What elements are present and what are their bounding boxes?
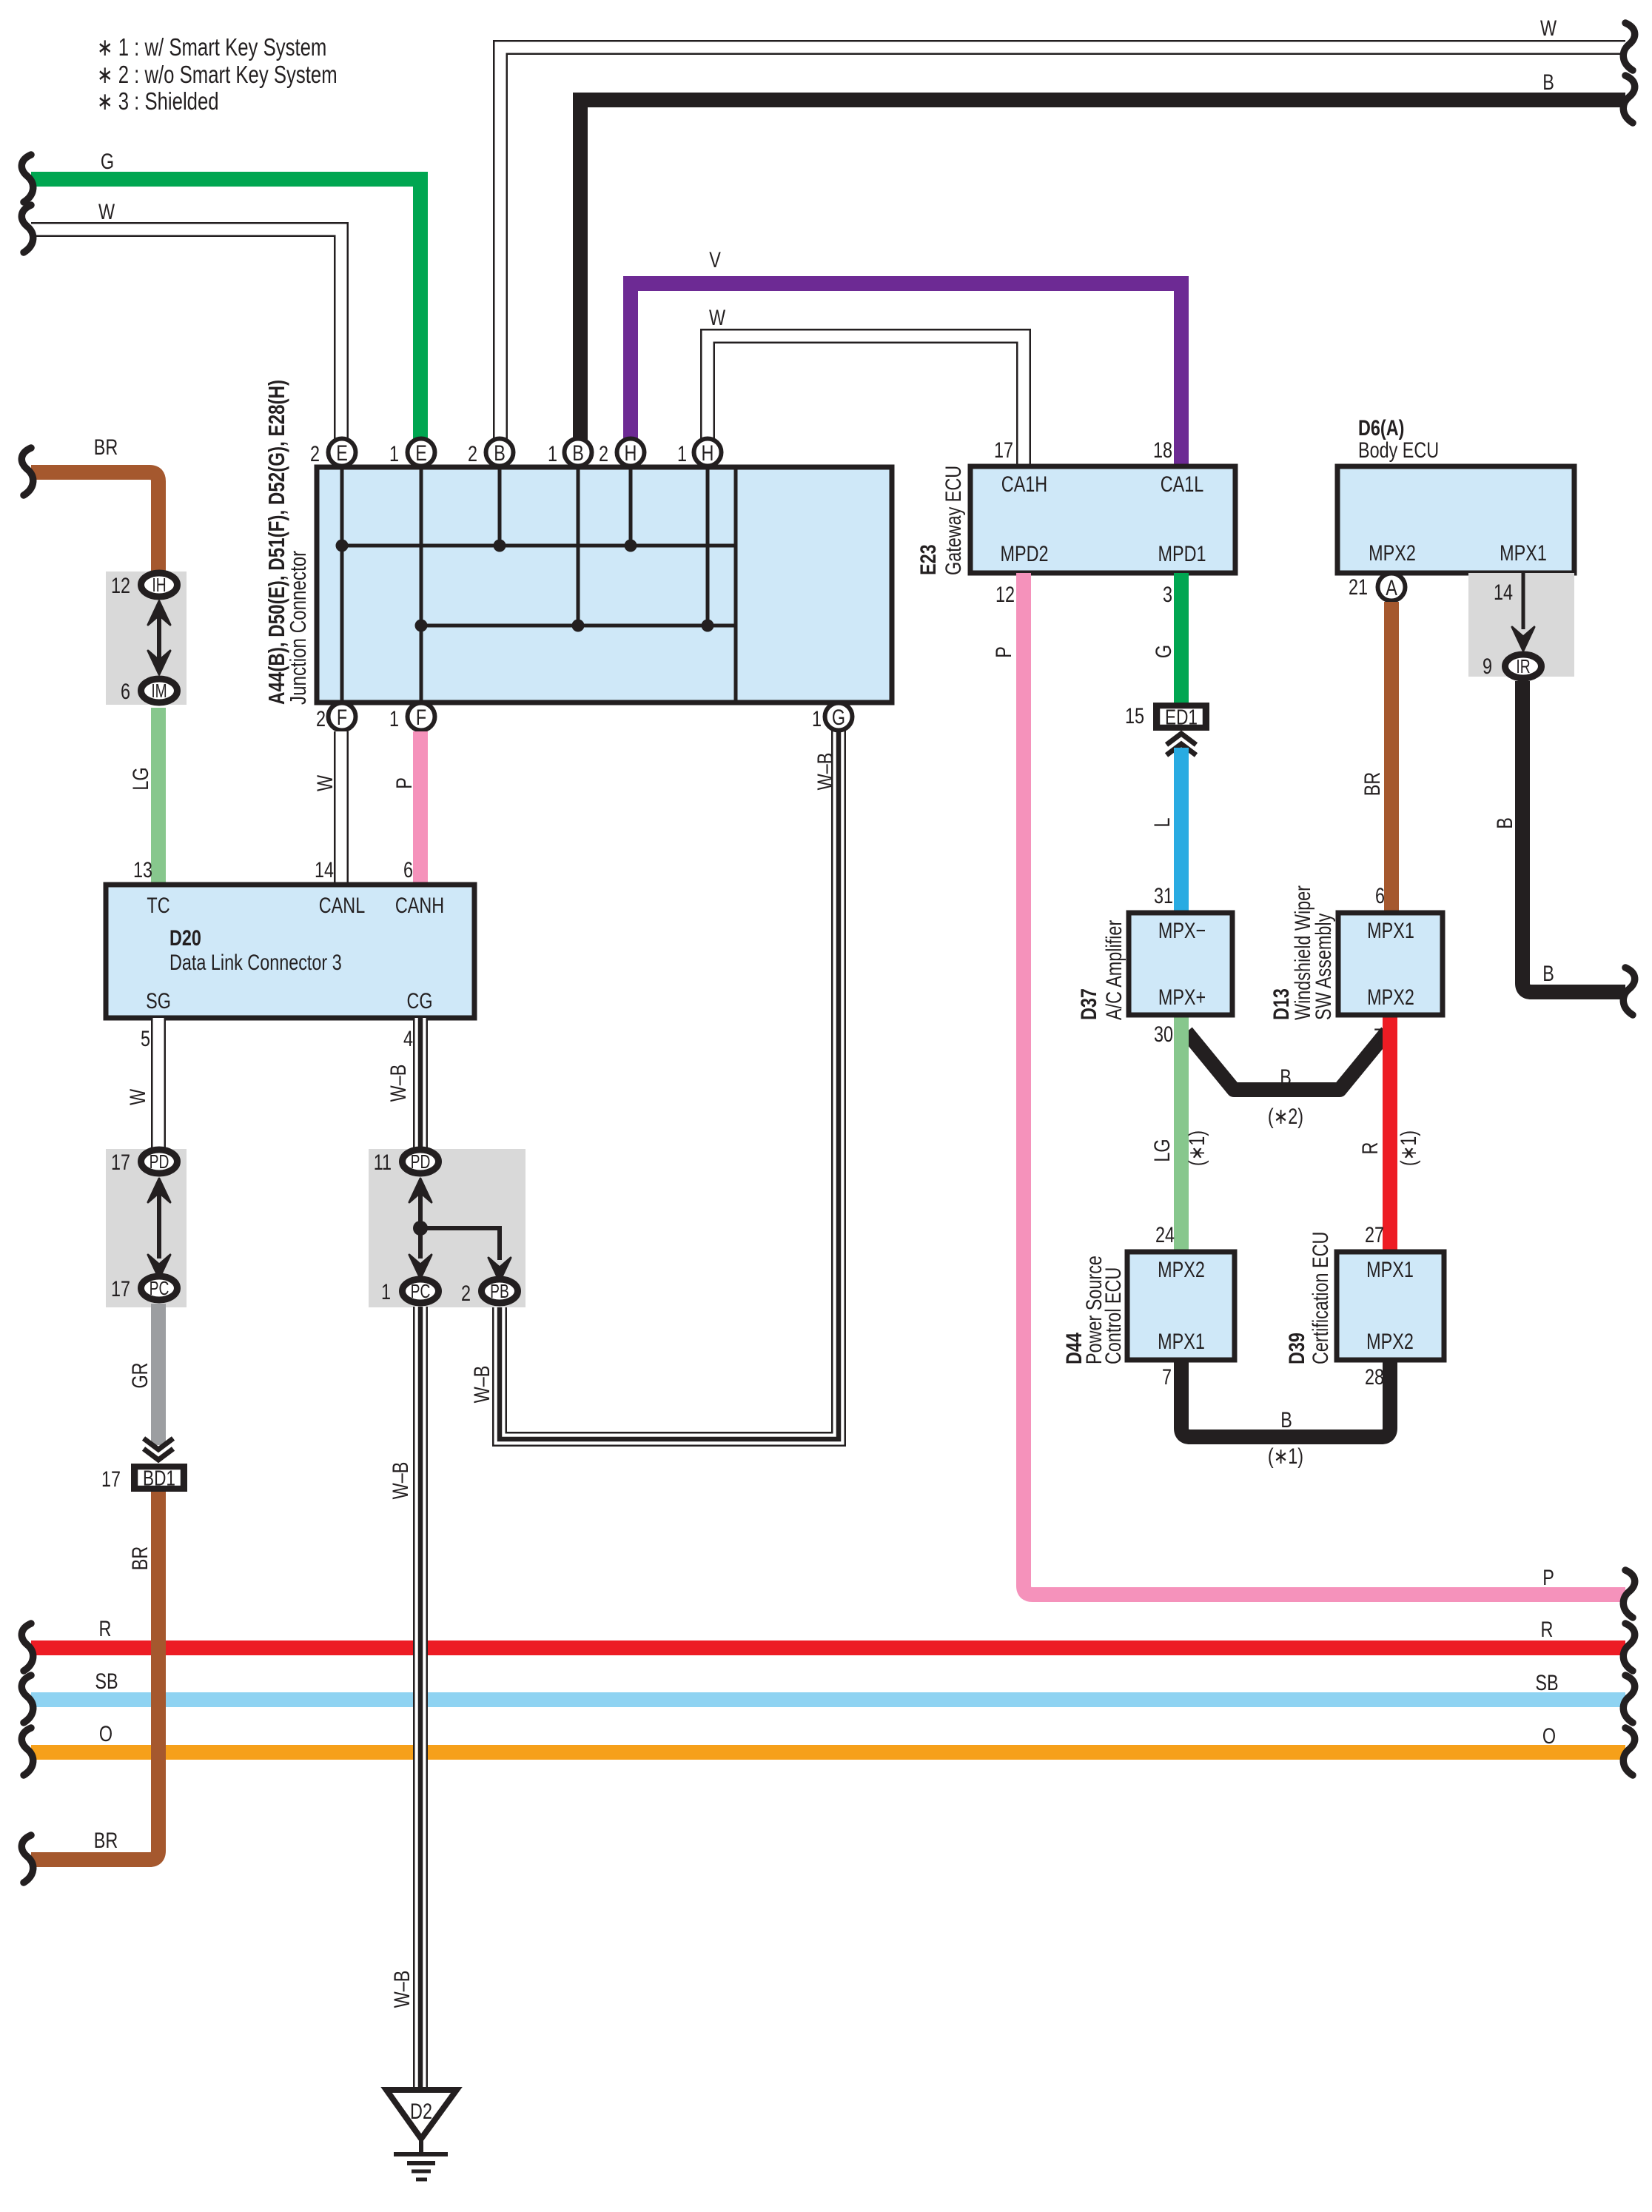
svg-text:B: B [1280, 1407, 1292, 1432]
curly P right [1623, 1570, 1634, 1618]
svg-text:1: 1 [381, 1279, 391, 1304]
svg-text:B: B [1492, 817, 1517, 829]
svg-text:∗ 3 : Shielded: ∗ 3 : Shielded [97, 88, 219, 115]
svg-text:MPX1: MPX1 [1367, 918, 1414, 942]
bus wire R red [31, 1640, 1625, 1655]
svg-text:B: B [494, 440, 506, 465]
svg-text:Gateway ECU: Gateway ECU [941, 466, 965, 575]
svg-text:28: 28 [1365, 1364, 1384, 1389]
svg-text:W: W [312, 774, 337, 791]
svg-text:W: W [709, 305, 726, 329]
wire W-B (G1 via bottom run to PB) [500, 717, 839, 1439]
svg-text:MPD1: MPD1 [1158, 541, 1206, 566]
D37 A/C Amplifier box [1129, 913, 1232, 1015]
connector G1 [825, 703, 853, 731]
wire B (*1) bridge D44 MPX1 to D39 MPX2 [1181, 1360, 1390, 1437]
bus wire O orange [31, 1745, 1625, 1760]
wire V purple (H2 to gateway CA1L) [631, 284, 1181, 469]
svg-text:G: G [1151, 645, 1175, 658]
connector IH [141, 573, 178, 597]
bus wire SB sky blue [31, 1692, 1625, 1707]
junction internal wire H2 stub [629, 467, 633, 546]
svg-text:15: 15 [1125, 703, 1144, 728]
shield block IH-IM [106, 572, 187, 705]
junction connector internal separator [734, 467, 738, 703]
svg-text:D6(A): D6(A) [1358, 415, 1404, 440]
svg-text:1: 1 [389, 706, 399, 731]
svg-text:GR: GR [127, 1362, 152, 1388]
svg-text:O: O [99, 1721, 113, 1746]
svg-text:MPX+: MPX+ [1158, 985, 1206, 1009]
wire W top (B2 junction to right edge) [500, 47, 1625, 452]
connector IM [141, 679, 178, 703]
svg-text:MPX2: MPX2 [1158, 1257, 1205, 1281]
shield block PD-PC-PB right [369, 1149, 526, 1307]
svg-text:17: 17 [101, 1467, 121, 1491]
svg-text:BD1: BD1 [143, 1466, 175, 1490]
shield block PD-PC left [106, 1149, 187, 1307]
svg-text:PD: PD [411, 1150, 431, 1173]
connector F1 [408, 703, 435, 731]
svg-text:BR: BR [94, 1828, 118, 1852]
connector H1 [694, 439, 722, 466]
svg-text:BR: BR [127, 1546, 152, 1570]
connector F2 [329, 703, 356, 731]
ground symbol D2 [386, 2090, 457, 2139]
junction block BD1 [134, 1467, 185, 1489]
junction internal wire B2 stub [498, 467, 502, 546]
svg-text:MPX1: MPX1 [1366, 1257, 1414, 1281]
svg-text:A: A [1386, 575, 1397, 600]
svg-text:E23: E23 [916, 544, 940, 575]
svg-text:3: 3 [1163, 582, 1172, 606]
curly R left [21, 1623, 33, 1671]
junction block ED1 [1156, 706, 1207, 728]
junction internal bus lower [421, 624, 736, 628]
svg-text:W–B: W–B [388, 1462, 412, 1500]
svg-text:F: F [337, 705, 347, 729]
svg-text:D39: D39 [1284, 1333, 1309, 1364]
svg-text:1: 1 [812, 706, 822, 731]
wire BR (A to D13 MPX1) [1384, 602, 1399, 913]
connector B2 [486, 439, 514, 466]
wire R (D13 MPX2 to D39 MPX1) [1383, 1015, 1397, 1252]
curly end W top right [1623, 23, 1634, 70]
svg-text:P: P [1542, 1565, 1554, 1589]
svg-text:R: R [1357, 1142, 1382, 1155]
svg-text:CANL: CANL [319, 893, 365, 917]
wire LG (IM to TC) [151, 708, 166, 885]
svg-text:(∗1): (∗1) [1396, 1130, 1420, 1166]
svg-text:SG: SG [146, 988, 171, 1013]
wire W left (left edge to E2) [31, 229, 341, 452]
svg-text:6: 6 [121, 679, 130, 703]
svg-text:9: 9 [1483, 654, 1492, 678]
junction internal wire B1 stub [577, 467, 580, 626]
svg-text:PD: PD [150, 1150, 169, 1173]
connector PB [482, 1279, 518, 1303]
curly B right [1623, 968, 1634, 1015]
curly R right [1623, 1623, 1634, 1671]
wire GR (PC to BD1) [151, 1304, 166, 1445]
wire P pink (F1 to CANH) [413, 731, 428, 885]
svg-text:L: L [1149, 817, 1174, 827]
junction dot H1 [702, 620, 714, 632]
wire W-B (PC to ground D2) [413, 1307, 428, 2090]
svg-text:Junction Connector: Junction Connector [285, 551, 311, 705]
svg-text:CA1H: CA1H [1001, 472, 1047, 496]
junction internal wire E2-F2 [340, 467, 344, 703]
curly SB left [21, 1675, 33, 1723]
D39 Certification ECU box [1337, 1252, 1444, 1360]
double chevron into BD1 [144, 1438, 173, 1449]
junction internal wire E1-F1 [420, 467, 423, 703]
junction dot H2 [625, 540, 637, 552]
svg-text:W: W [1540, 16, 1557, 40]
svg-text:G: G [832, 705, 845, 729]
svg-text:R: R [99, 1616, 112, 1640]
svg-text:D20: D20 [169, 925, 201, 950]
svg-text:14: 14 [1494, 580, 1513, 604]
wire W (F2 to CANL) [334, 731, 349, 885]
svg-text:Certification ECU: Certification ECU [1308, 1232, 1332, 1364]
svg-text:17: 17 [994, 438, 1013, 462]
svg-text:MPX2: MPX2 [1367, 985, 1414, 1009]
wire B (*2) bridge D37 MPX+ to D13 MPX2 [1186, 1032, 1387, 1090]
svg-text:∗ 2 : w/o Smart Key System: ∗ 2 : w/o Smart Key System [97, 61, 338, 89]
curly end BR bottom-left [21, 1835, 33, 1883]
connector PC right [403, 1279, 439, 1303]
D13 Windshield Wiper SW Assembly box [1338, 913, 1443, 1015]
svg-text:H: H [625, 440, 637, 465]
D6(A) Body ECU box [1337, 466, 1574, 573]
svg-text:E: E [336, 440, 348, 465]
svg-text:2: 2 [599, 441, 608, 466]
wire LG (D37 MPX+ to D44 MPX2) [1174, 1015, 1189, 1252]
svg-text:D37: D37 [1076, 988, 1101, 1020]
svg-text:IH: IH [152, 574, 166, 596]
svg-text:H: H [702, 440, 714, 465]
svg-text:TC: TC [147, 893, 169, 917]
wire L blue (ED1 to D37 MPX-) [1174, 748, 1189, 913]
wire BR (BD1 to left edge bottom) [31, 1492, 158, 1860]
svg-text:2: 2 [461, 1281, 471, 1305]
svg-text:1: 1 [548, 441, 557, 466]
svg-text:18: 18 [1153, 438, 1172, 462]
connector H2 [617, 439, 645, 466]
svg-text:W–B: W–B [386, 1065, 410, 1102]
svg-text:13: 13 [133, 857, 152, 882]
svg-text:24: 24 [1155, 1222, 1175, 1247]
svg-text:MPD2: MPD2 [1001, 541, 1049, 566]
svg-text:CA1L: CA1L [1161, 472, 1204, 496]
svg-text:MPX2: MPX2 [1366, 1329, 1414, 1353]
svg-text:PB: PB [490, 1280, 509, 1302]
svg-text:V: V [709, 247, 721, 272]
svg-text:D2: D2 [410, 2099, 432, 2123]
svg-text:G: G [101, 149, 114, 173]
arrow link PD-PC-PB [418, 1184, 423, 1259]
svg-text:CG: CG [406, 988, 432, 1013]
svg-text:LG: LG [128, 767, 152, 790]
D44 Power Source Control ECU box [1127, 1252, 1235, 1360]
svg-text:MPX2: MPX2 [1369, 540, 1416, 565]
svg-text:12: 12 [995, 582, 1015, 606]
svg-text:6: 6 [403, 857, 413, 882]
svg-text:SB: SB [1535, 1670, 1558, 1695]
curly SB right [1623, 1675, 1634, 1723]
svg-text:2: 2 [468, 441, 477, 466]
wire BR vertical overlay crossing buses [151, 1569, 166, 1851]
connector PC left [141, 1276, 178, 1300]
svg-text:14: 14 [315, 857, 334, 882]
svg-text:B: B [1542, 70, 1554, 94]
svg-text:BR: BR [1360, 772, 1384, 796]
svg-text:(∗2): (∗2) [1268, 1104, 1303, 1128]
svg-text:W–B: W–B [813, 753, 837, 791]
svg-text:W–B: W–B [389, 1971, 414, 2008]
wire P pink (MPD2 to right edge) [1024, 573, 1625, 1595]
svg-text:P: P [392, 777, 416, 789]
svg-text:E: E [415, 440, 427, 465]
D20 Data Link Connector 3 box [106, 885, 474, 1018]
svg-text:Body ECU: Body ECU [1358, 438, 1439, 462]
svg-text:4: 4 [403, 1026, 413, 1050]
junction dot PD branch [413, 1221, 428, 1236]
svg-text:1: 1 [677, 441, 687, 466]
curly end G left [21, 155, 33, 202]
svg-text:MPX−: MPX− [1158, 918, 1206, 942]
svg-text:SB: SB [95, 1669, 118, 1693]
svg-text:Data Link Connector 3: Data Link Connector 3 [169, 950, 342, 974]
svg-text:∗ 1 : w/ Smart Key System: ∗ 1 : w/ Smart Key System [97, 34, 326, 61]
E23 Gateway ECU box [970, 466, 1235, 573]
svg-text:7: 7 [1162, 1364, 1172, 1389]
svg-text:5: 5 [141, 1026, 150, 1050]
svg-text:2: 2 [316, 706, 326, 731]
connector PD right [403, 1150, 439, 1173]
svg-text:27: 27 [1365, 1222, 1384, 1247]
svg-text:B: B [572, 440, 584, 465]
junction connector A44(B) D50(E) D51(F) D52(G) E28(H) box [317, 467, 892, 703]
curly O left [21, 1728, 33, 1775]
wire B (IR to right edge) [1522, 681, 1625, 992]
junction dot E2 [336, 540, 349, 552]
svg-text:ED1: ED1 [1165, 705, 1198, 729]
connector A [1378, 574, 1406, 601]
svg-text:F: F [416, 705, 426, 729]
svg-text:W–B: W–B [469, 1366, 494, 1404]
wire W (H1 to gateway CA1H) [708, 336, 1024, 469]
svg-text:CANH: CANH [395, 893, 444, 917]
svg-text:17: 17 [111, 1276, 130, 1301]
svg-text:W: W [98, 199, 115, 224]
connector E1 [408, 439, 435, 466]
svg-text:17: 17 [111, 1150, 130, 1174]
svg-text:PC: PC [150, 1277, 169, 1299]
junction dot E1 [415, 620, 428, 632]
curly end BR top-left [21, 448, 33, 495]
svg-text:O: O [1542, 1723, 1556, 1748]
svg-text:30: 30 [1154, 1022, 1173, 1046]
svg-text:B: B [1542, 961, 1554, 985]
curly end B top right [1623, 76, 1634, 123]
wire W-B overlay crossing buses [413, 1592, 428, 1806]
svg-text:IM: IM [151, 680, 167, 702]
svg-text:11: 11 [374, 1150, 392, 1174]
svg-text:PC: PC [411, 1280, 431, 1302]
connector E2 [329, 439, 356, 466]
svg-text:6: 6 [1375, 883, 1385, 908]
junction internal wire H1 stub [706, 467, 710, 626]
svg-text:IR: IR [1516, 655, 1530, 677]
arrow link PD-PC [157, 1184, 161, 1259]
curly O right [1623, 1728, 1634, 1775]
svg-text:W: W [125, 1088, 150, 1105]
connector B1 [565, 439, 592, 466]
svg-text:R: R [1541, 1617, 1554, 1641]
svg-text:P: P [991, 646, 1015, 658]
junction internal bus upper [342, 544, 736, 548]
svg-text:SW Assembly: SW Assembly [1311, 913, 1335, 1020]
wire W-B (CG to PD) [413, 1018, 428, 1149]
connector IR [1505, 654, 1542, 678]
wire G green (MPD1 to ED1) [1174, 573, 1189, 703]
svg-text:BR: BR [94, 435, 118, 459]
svg-text:2: 2 [310, 441, 320, 466]
double chevron below ED1 [1166, 734, 1196, 745]
wire W (SG to PD) [151, 1018, 166, 1149]
arrow link IH-IM [157, 607, 161, 670]
svg-text:MPX1: MPX1 [1158, 1329, 1205, 1353]
curly end W left [21, 205, 33, 252]
junction dot B1 [572, 620, 585, 632]
svg-text:B: B [1280, 1065, 1292, 1089]
svg-text:1: 1 [389, 441, 399, 466]
svg-text:(∗1): (∗1) [1268, 1444, 1303, 1468]
junction dot B2 [494, 540, 506, 552]
wire BR top-left (left edge to IH) [31, 472, 158, 572]
svg-text:A/C Amplifier: A/C Amplifier [1101, 920, 1126, 1020]
svg-text:LG: LG [1149, 1139, 1174, 1162]
svg-text:Control ECU: Control ECU [1101, 1267, 1125, 1364]
svg-text:MPX1: MPX1 [1500, 540, 1547, 565]
svg-text:12: 12 [111, 573, 130, 597]
svg-text:7: 7 [1374, 1024, 1383, 1048]
wire B top (B1 junction to right edge) [580, 100, 1625, 452]
svg-text:21: 21 [1349, 574, 1368, 599]
wire G green (left edge to E1) [31, 179, 420, 452]
shield block IR [1468, 573, 1574, 677]
connector PD left [141, 1150, 178, 1173]
svg-text:31: 31 [1154, 883, 1173, 908]
svg-text:(∗1): (∗1) [1184, 1130, 1209, 1166]
